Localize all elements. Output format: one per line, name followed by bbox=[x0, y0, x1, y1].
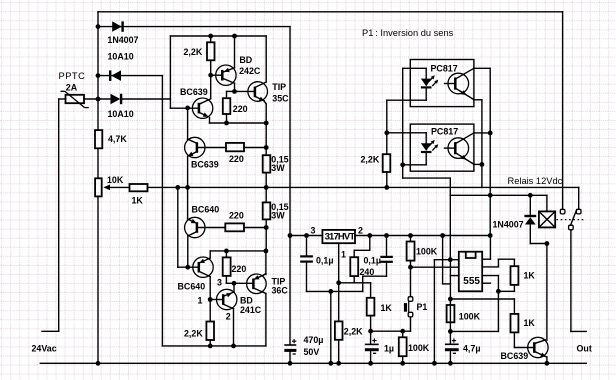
wire 1K to timing node bbox=[370, 316, 372, 332]
timer U4 555 bbox=[459, 252, 482, 292]
node emitter junction y123 bbox=[264, 121, 269, 126]
capacitor 1µ bbox=[370, 331, 372, 343]
svg-text:2A: 2A bbox=[66, 82, 78, 92]
wire U3 emitter stub bbox=[472, 163, 474, 164]
wire emitter column through H7 bbox=[187, 156, 189, 218]
svg-text:1: 1 bbox=[198, 295, 203, 305]
svg-text:BD: BD bbox=[239, 55, 252, 65]
wire ADJ pin column bbox=[338, 243, 340, 321]
wire 555 discharge jog to 1K bbox=[482, 266, 498, 268]
wire bias column x178 bbox=[177, 187, 179, 267]
node ADJ bbox=[336, 280, 341, 285]
svg-text:2,2K: 2,2K bbox=[184, 328, 203, 338]
svg-text:10K: 10K bbox=[107, 175, 124, 185]
node emitters lower bbox=[480, 162, 485, 167]
wire riser to 0,1µ output bottom bbox=[362, 276, 364, 291]
svg-text:3W: 3W bbox=[271, 210, 285, 220]
wire 1K bottom to output node bbox=[513, 285, 515, 291]
pushbutton P1 bbox=[410, 267, 412, 296]
svg-text:Out: Out bbox=[577, 344, 592, 354]
wire relay-net column x450 bbox=[449, 195, 451, 259]
svg-text:1N4007: 1N4007 bbox=[107, 35, 138, 45]
wire 0,15 lower to 220 junction bbox=[265, 219, 267, 251]
node y251/TIP36C emitter bbox=[264, 249, 269, 254]
wire bus y331 right bbox=[450, 330, 498, 332]
svg-text:10A10: 10A10 bbox=[108, 52, 134, 62]
svg-text:PC817: PC817 bbox=[431, 126, 458, 136]
light arrows U3 bbox=[429, 142, 433, 147]
capacitor 470µ 50V bbox=[284, 344, 296, 346]
node 100K/ground bbox=[400, 361, 405, 366]
svg-text:3W: 3W bbox=[271, 163, 285, 173]
svg-text:220: 220 bbox=[232, 264, 247, 274]
svg-text:1K: 1K bbox=[524, 271, 536, 281]
resistor 220 horizontal (Q4 base) bbox=[226, 143, 244, 151]
node cathode lower LED bbox=[400, 162, 405, 167]
wire ground branch x331 bbox=[330, 291, 332, 363]
svg-text:0,1µ: 0,1µ bbox=[364, 256, 381, 266]
wire LED node to relay line bbox=[403, 177, 451, 179]
PPTC 2A thermistor bbox=[59, 98, 66, 100]
node collectors/relay line bbox=[488, 193, 493, 198]
svg-text:36C: 36C bbox=[272, 286, 289, 296]
diode 1N4007 flyback bbox=[529, 195, 531, 215]
wire emitters column x482 bbox=[481, 100, 483, 188]
svg-text:P1 : Inversion du sens: P1 : Inversion du sens bbox=[362, 28, 454, 38]
LED of U3 bbox=[387, 132, 426, 134]
optocoupler U2 PC817 box bbox=[410, 60, 474, 107]
wire collectors column x490 bbox=[489, 68, 491, 235]
wire timing bus y331 bbox=[371, 330, 411, 332]
LED of U2 bbox=[403, 67, 427, 69]
wire left AC column V1 bbox=[97, 12, 99, 130]
svg-text:220: 220 bbox=[233, 104, 248, 114]
node 555 output bbox=[496, 289, 501, 294]
svg-text:0,1µ: 0,1µ bbox=[316, 256, 333, 266]
svg-text:1µ: 1µ bbox=[384, 344, 394, 354]
wire 555 vcc pin bbox=[482, 258, 490, 260]
resistor 240 bbox=[350, 257, 358, 276]
svg-text:240: 240 bbox=[360, 267, 375, 277]
svg-text:P1: P1 bbox=[417, 302, 428, 312]
svg-text:100K: 100K bbox=[408, 343, 430, 353]
wire U3 collector stub bbox=[474, 132, 490, 134]
node 555 pin/divider column bbox=[448, 257, 453, 262]
resistor 100K timing bbox=[402, 331, 404, 337]
node Q9 emitter/ground bbox=[545, 361, 550, 366]
svg-text:4,7µ: 4,7µ bbox=[463, 344, 480, 354]
wire 555 pin jog to rail drop bbox=[450, 275, 458, 277]
node 470µ/ground bbox=[288, 361, 293, 366]
wire 555 control stub bbox=[482, 282, 490, 284]
svg-text:1K: 1K bbox=[381, 303, 393, 313]
resistor 100K divider bbox=[447, 305, 455, 322]
svg-text:1: 1 bbox=[341, 250, 346, 260]
node relay line/flyback bbox=[528, 193, 533, 198]
wire driver rail y251 bbox=[210, 250, 266, 252]
diode D3 10A10 bbox=[111, 94, 121, 104]
svg-text:24Vac: 24Vac bbox=[32, 344, 57, 354]
switch contact B bbox=[578, 187, 580, 208]
resistor 1K 555 bbox=[511, 266, 519, 285]
wire collector column of lower BC639 bbox=[187, 108, 189, 140]
node 1µ/ground bbox=[368, 361, 373, 366]
switch common bbox=[569, 225, 574, 230]
svg-text:1N4007: 1N4007 bbox=[493, 220, 524, 230]
wire 555 output pin bbox=[482, 275, 498, 277]
svg-text:100K: 100K bbox=[459, 312, 481, 322]
switch blade bbox=[571, 210, 577, 226]
svg-text:BC639: BC639 bbox=[180, 87, 208, 97]
resistor 0,15 3W upper bbox=[263, 155, 271, 172]
wire H4 to amp negative bbox=[98, 75, 162, 77]
svg-text:2,2K: 2,2K bbox=[184, 47, 203, 57]
resistor 0,15 3W lower bbox=[263, 202, 271, 219]
svg-text:242C: 242C bbox=[239, 66, 261, 76]
wire jog to 220 R1 bbox=[227, 90, 235, 92]
node divider/4,7µ bus bbox=[448, 329, 453, 334]
node 220 bottom y123 bbox=[224, 121, 229, 126]
resistor 1K timing bbox=[367, 298, 375, 316]
wire PPTC to node bbox=[84, 98, 111, 100]
svg-text:2: 2 bbox=[358, 226, 363, 236]
optocoupler U3 PC817 box bbox=[410, 124, 474, 171]
node x290/H8 bbox=[288, 233, 293, 238]
svg-text:2: 2 bbox=[226, 312, 231, 322]
wire amp negative bottom bbox=[162, 345, 266, 347]
resistor 220 horizontal (Q5 base) bbox=[225, 223, 244, 231]
node relay/flyback bottom bbox=[545, 241, 550, 246]
resistor 4,7K bbox=[95, 130, 102, 148]
svg-text:35C: 35C bbox=[272, 93, 289, 103]
capacitor 4,7µ bbox=[445, 343, 459, 345]
wire U2 emitter stub bbox=[472, 98, 474, 99]
node bottom/2,2K bbox=[208, 344, 213, 349]
diode D2 10A10 bbox=[109, 70, 111, 81]
wire H2 rectified feed bbox=[98, 26, 290, 28]
phototransistor of U2 bbox=[448, 73, 469, 94]
wire H8 regulator output bbox=[355, 235, 490, 237]
node TIP36C base / BD241C emitter bbox=[232, 281, 237, 286]
node 220/0,15 column bbox=[264, 145, 269, 150]
svg-text:3: 3 bbox=[311, 226, 316, 236]
node 100K/P1 bbox=[408, 265, 413, 270]
node H7/2,2K opto bbox=[384, 185, 389, 190]
wire D3 to amp positive bbox=[121, 98, 170, 100]
wire 2,2K column bbox=[210, 36, 212, 42]
resistor 2,2K upper bbox=[207, 42, 215, 60]
node BD241C base bbox=[208, 297, 213, 302]
node 2,2K adj/ground bbox=[336, 361, 341, 366]
svg-text:317HVT: 317HVT bbox=[325, 231, 356, 242]
diode D1 1N4007 bbox=[112, 21, 122, 31]
node output/relay riser bbox=[488, 233, 493, 238]
switch contact A bbox=[562, 12, 564, 209]
wire ground bottom rail bbox=[40, 362, 586, 364]
node BC640 collector/base link bbox=[185, 265, 190, 270]
svg-text:TIP: TIP bbox=[272, 82, 286, 92]
node 4,7µ/ground bbox=[448, 361, 453, 366]
node output/0,1µ out bbox=[384, 233, 389, 238]
resistor 1K base bbox=[511, 314, 519, 333]
wire ADJ lateral bbox=[339, 282, 371, 284]
wire U2 collector stub bbox=[474, 67, 490, 69]
regulator U1 317HVT bbox=[322, 230, 355, 243]
wire negative rail column V2 bbox=[161, 76, 163, 346]
svg-text:1K: 1K bbox=[524, 318, 536, 328]
capacitor 0,1µ input bbox=[306, 236, 308, 256]
svg-text:10A10: 10A10 bbox=[108, 109, 134, 119]
svg-text:4,7K: 4,7K bbox=[108, 134, 127, 144]
svg-text:100K: 100K bbox=[416, 247, 438, 257]
node collectors lower bbox=[488, 131, 493, 136]
wire 0,15 column upper bbox=[265, 36, 267, 82]
resistor 2,2K adj bbox=[335, 321, 343, 339]
svg-text:BC640: BC640 bbox=[178, 281, 206, 291]
wire 220 bottom bbox=[226, 114, 228, 123]
phototransistor of U3 bbox=[448, 138, 469, 159]
wire TIP35C base bbox=[235, 90, 255, 92]
node 0,1µ ground branch bbox=[328, 289, 333, 294]
transistor Q8 BD241C bbox=[217, 289, 237, 309]
wire LED node column x387 bbox=[386, 100, 388, 154]
svg-text:220: 220 bbox=[229, 211, 244, 221]
resistor 1K wiper bbox=[130, 184, 148, 191]
wire raw positive column x290 bbox=[289, 27, 291, 345]
node bottom/BD241C collector bbox=[231, 344, 236, 349]
capacitor 0,1µ output bbox=[386, 236, 388, 256]
svg-text:241C: 241C bbox=[240, 305, 262, 315]
node V1/ground bbox=[96, 361, 101, 366]
wire 24Vac upper stub bbox=[58, 99, 60, 331]
svg-text:BC639: BC639 bbox=[191, 159, 219, 169]
wire H8 regulator input bbox=[290, 235, 322, 237]
wire 0,1µ bottom link bbox=[307, 290, 363, 292]
svg-text:50V: 50V bbox=[304, 347, 320, 357]
wire trigger to 555 bbox=[411, 266, 459, 268]
node 555 ground/ground bbox=[432, 361, 437, 366]
node 0,15/220 (Q5 base line) bbox=[264, 225, 269, 230]
resistor 2,2K lower bbox=[206, 322, 214, 341]
node BD242C collector bbox=[232, 89, 237, 94]
transistor Q6 BC640 lower bbox=[193, 257, 213, 277]
node H8/0,1µ input bbox=[304, 233, 309, 238]
wire relay feed line y195 bbox=[450, 194, 547, 196]
node output/100K bbox=[408, 233, 413, 238]
node V1/H4 bbox=[96, 73, 101, 78]
svg-text:BC640: BC640 bbox=[192, 204, 220, 214]
node H3/BD242C emitter bbox=[232, 34, 237, 39]
svg-text:PPTC: PPTC bbox=[59, 71, 86, 81]
wire relay dotted link bbox=[557, 219, 586, 221]
potentiometer 10K bbox=[95, 178, 102, 196]
wire H3 positive feed bbox=[170, 35, 266, 37]
wire base link to BC640 lower bbox=[178, 266, 199, 268]
node timing/100K bbox=[400, 329, 405, 334]
svg-text:220: 220 bbox=[229, 154, 244, 164]
svg-text:1K: 1K bbox=[132, 196, 144, 206]
wire 240 jog bbox=[369, 236, 371, 251]
node BC639 base/BC639 lower collector bbox=[185, 106, 190, 111]
wire emitter bus y123 bbox=[210, 122, 267, 124]
transistor Q4 BC639 lower bbox=[185, 137, 205, 157]
wire 555 ground pin bbox=[434, 259, 458, 261]
node x331/ground bbox=[328, 361, 333, 366]
light arrows U2 bbox=[429, 77, 433, 82]
wire V1 lower segments bbox=[97, 148, 99, 178]
svg-text:PC817: PC817 bbox=[431, 64, 458, 74]
transistor Q9 BC639 output bbox=[528, 337, 548, 357]
transistor Q2 TIP35C bbox=[248, 82, 268, 102]
resistor 2,2K opto bbox=[383, 154, 391, 172]
svg-text:Relais 12Vdc: Relais 12Vdc bbox=[508, 176, 563, 186]
node output/240 bbox=[367, 233, 372, 238]
node y251/220 bbox=[224, 249, 229, 254]
transistor Q3 BC639 upper bbox=[192, 98, 212, 118]
relay K1 coil bbox=[546, 195, 548, 211]
node H7/emitter column bbox=[185, 185, 190, 190]
node divider top bbox=[448, 297, 453, 302]
wire 0,15 to H7 bbox=[265, 173, 267, 203]
svg-text:3: 3 bbox=[217, 278, 222, 288]
svg-text:470µ: 470µ bbox=[304, 335, 324, 345]
resistor 220 (Q7 drive) bbox=[223, 257, 231, 276]
wire output column bbox=[570, 230, 572, 332]
wire 1K to BC639 base bbox=[513, 332, 515, 347]
node anode lower LED bbox=[384, 130, 389, 135]
node 2,2K/BD242C base bbox=[208, 73, 213, 78]
resistor 100K pullup bbox=[410, 236, 412, 242]
svg-text:BD: BD bbox=[240, 295, 253, 305]
wire drive line y299 bbox=[450, 298, 514, 300]
wire top rail bbox=[98, 11, 563, 13]
transistor Q1 BD242C bbox=[216, 65, 236, 85]
node output/555 pin drop bbox=[440, 233, 445, 238]
svg-text:2,2K: 2,2K bbox=[361, 154, 380, 164]
wire LED node column x403 bbox=[402, 68, 404, 178]
node H3/2,2K bbox=[208, 34, 213, 39]
wire H3 left drop to bridge node and BC639 base bbox=[169, 36, 171, 108]
node H7/0,15 column bbox=[264, 185, 269, 190]
wire H7 feedback line bbox=[178, 186, 579, 188]
resistor 220 (Q1 load) bbox=[223, 98, 231, 114]
transistor Q7 TIP36C bbox=[247, 274, 267, 294]
svg-text:555: 555 bbox=[463, 276, 480, 287]
node H7/bias column bbox=[175, 185, 180, 190]
svg-text:2,2K: 2,2K bbox=[344, 327, 363, 337]
svg-text:BC639: BC639 bbox=[501, 351, 529, 361]
node timing y331 bbox=[368, 329, 373, 334]
node V1/H2 bbox=[96, 24, 101, 29]
transistor Q5 BC640 upper bbox=[185, 217, 205, 237]
node V1/H5 bbox=[96, 97, 101, 102]
